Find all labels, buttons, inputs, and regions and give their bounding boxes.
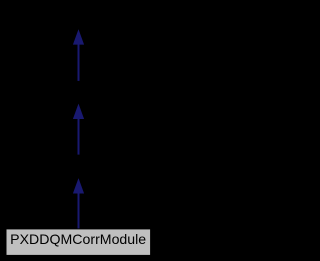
svg-text:PXDDQMCorrModule: PXDDQMCorrModule: [10, 231, 146, 247]
